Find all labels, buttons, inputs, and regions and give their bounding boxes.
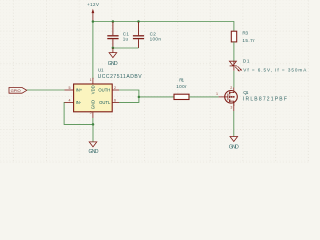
svg-text:100n: 100n [150, 37, 162, 42]
svg-text:1u: 1u [123, 37, 129, 42]
svg-text:3: 3 [90, 111, 92, 115]
svg-text:6: 6 [114, 98, 116, 102]
svg-text:15.7r: 15.7r [242, 38, 255, 43]
svg-text:D1: D1 [243, 58, 250, 63]
wire LED to Q1 drain [233, 71, 235, 88]
ground under caps [109, 48, 117, 58]
svg-text:+12V: +12V [87, 2, 99, 7]
svg-text:3: 3 [230, 106, 232, 110]
ground under Q1 [230, 137, 238, 142]
wire to R1 [139, 96, 174, 98]
power flag +12V [92, 9, 95, 22]
wire R3 to LED [233, 42, 235, 61]
junction output tie [138, 96, 141, 99]
svg-text:GND: GND [229, 144, 239, 150]
wire junction to ground B [92, 124, 94, 141]
svg-text:OUTL: OUTL [99, 100, 111, 105]
svg-text:GND: GND [108, 61, 118, 67]
svg-text:UCC27511ADBV: UCC27511ADBV [98, 74, 143, 80]
wire top rail [93, 22, 234, 32]
U1 pin OUTL [112, 101, 119, 103]
svg-text:5: 5 [69, 86, 71, 90]
svg-text:Vf = 6.5V, If = 350mA: Vf = 6.5V, If = 350mA [243, 67, 307, 72]
svg-text:IN+: IN+ [76, 88, 83, 93]
svg-text:Q1: Q1 [243, 90, 249, 95]
junction at +12V [92, 20, 95, 23]
U1 pin VDD [92, 78, 94, 84]
wire GPIO to IN+ [27, 89, 65, 91]
U1 pin IN+ [65, 89, 74, 91]
svg-text:IRLB8721PBF: IRLB8721PBF [243, 97, 287, 103]
junction C2 top [137, 20, 140, 23]
wire C2 bottom to C1 bottom [113, 47, 139, 49]
wire OUTH to tie [119, 90, 139, 102]
svg-text:1: 1 [90, 78, 92, 82]
wire U1 GND pin down [92, 118, 94, 124]
resistor R3 [231, 31, 236, 42]
wire IN- loop to GND [64, 102, 93, 124]
U1 pin IN- [65, 101, 74, 103]
transistor Q1 [219, 88, 238, 112]
global label GPIO [9, 88, 27, 94]
capacitor C2 [133, 22, 144, 48]
svg-text:R3: R3 [242, 31, 248, 36]
junction C1 top [112, 20, 115, 23]
capacitor C1 [107, 22, 118, 48]
U1 pin GND [92, 112, 94, 118]
resistor R1 [174, 94, 189, 99]
wire Q1 source to ground C [233, 111, 235, 137]
svg-text:IN-: IN- [76, 100, 82, 105]
junction C1 bottom [112, 47, 115, 50]
U1 pin OUTH [112, 89, 119, 91]
svg-text:2: 2 [230, 86, 232, 90]
junction under U1 [92, 123, 95, 126]
IC U1 UCC27511ADBV body [74, 84, 113, 112]
wire R1 to Q1 gate [189, 96, 219, 98]
svg-text:2: 2 [114, 86, 116, 90]
svg-text:GND: GND [89, 149, 99, 155]
wire VDD drop [92, 22, 94, 80]
svg-text:OUTH: OUTH [98, 88, 110, 93]
svg-text:R1: R1 [179, 77, 184, 82]
svg-text:GPIO: GPIO [11, 88, 21, 93]
LED D1 [229, 61, 242, 71]
ground under U1 [89, 142, 97, 147]
svg-text:VDD: VDD [90, 85, 95, 94]
svg-text:4: 4 [69, 98, 71, 102]
svg-text:1: 1 [216, 92, 218, 96]
svg-text:100r: 100r [176, 84, 187, 89]
svg-text:U1: U1 [98, 67, 104, 72]
svg-text:GND: GND [90, 100, 95, 109]
